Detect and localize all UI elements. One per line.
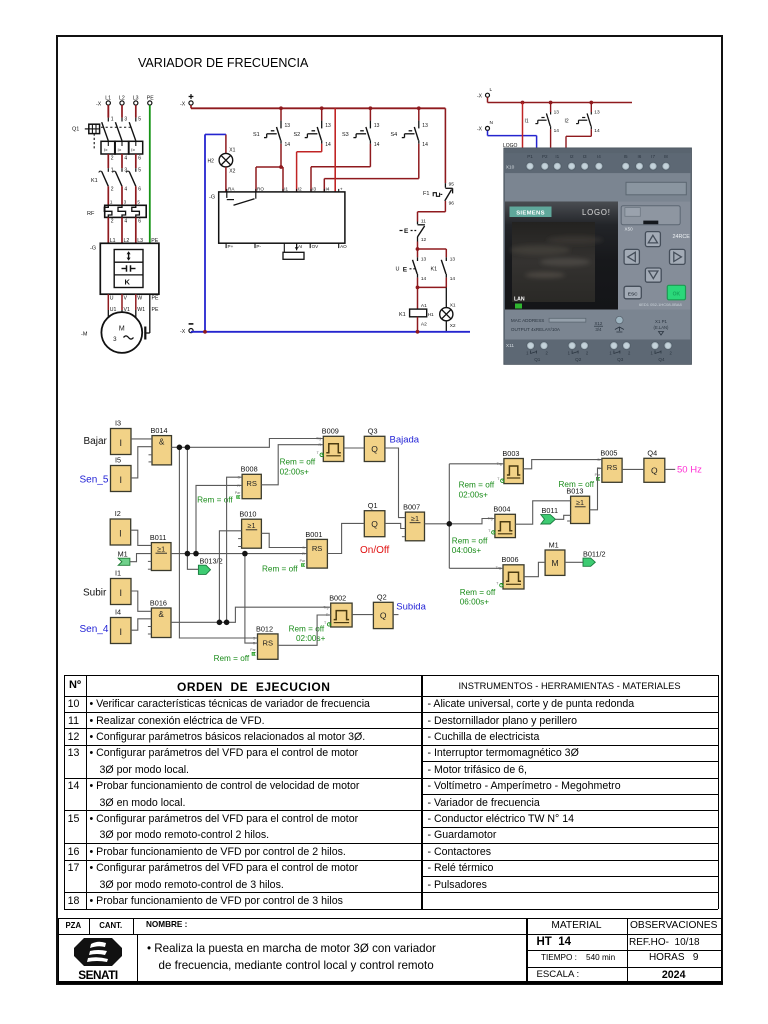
wire	[344, 447, 365, 449]
svg-text:I4: I4	[326, 187, 330, 192]
svg-text:14: 14	[594, 128, 600, 134]
timer block B002	[323, 594, 352, 628]
svg-text:I: I	[119, 627, 122, 637]
svg-text:T: T	[497, 477, 500, 481]
wire	[327, 523, 364, 553]
wire L1 drop to Q1	[108, 105, 136, 118]
wire	[171, 607, 331, 622]
LOGO top terminal strip	[505, 149, 690, 173]
svg-text:K1: K1	[91, 178, 98, 184]
wire	[227, 477, 243, 622]
svg-text:I3: I3	[583, 154, 587, 159]
svg-text:H1: H1	[428, 312, 434, 318]
OR block B007	[402, 503, 425, 541]
svg-text:Q: Q	[651, 466, 658, 476]
wire	[524, 562, 545, 576]
wire F1 to emergency stop	[418, 201, 446, 222]
emergency stop E (11-12)	[400, 218, 427, 243]
terminal -X N- (control)	[180, 324, 193, 335]
svg-text:4: 4	[124, 219, 127, 225]
contactor coil K1 (A1-A2)	[399, 287, 434, 331]
svg-text:I5: I5	[115, 456, 121, 465]
svg-text:E: E	[404, 228, 409, 235]
svg-text:13: 13	[422, 123, 428, 129]
input block I3	[111, 419, 132, 455]
LOGO LCD screen	[512, 222, 595, 302]
svg-text:B004: B004	[493, 505, 510, 514]
svg-text:P2: P2	[542, 154, 548, 159]
wire	[565, 561, 583, 563]
svg-text:RS: RS	[607, 463, 618, 472]
svg-text:B009: B009	[322, 427, 339, 436]
magnetic trip units of Q1	[101, 141, 143, 161]
svg-text:A2: A2	[421, 322, 427, 328]
svg-text:On/Off: On/Off	[360, 545, 389, 556]
wires -G to motor M	[108, 294, 150, 339]
svg-text:B012: B012	[256, 624, 273, 633]
relay output Q1 terminals	[527, 342, 535, 350]
output block Q1	[364, 501, 385, 537]
svg-text:MAC ADDRESS: MAC ADDRESS	[511, 318, 544, 323]
wire contact I1 to LOGO input I1	[550, 129, 552, 148]
wire	[172, 439, 324, 448]
svg-text:RS: RS	[263, 638, 274, 647]
pilot lamp H2 (X1 X2)	[208, 134, 236, 192]
svg-text:≥1: ≥1	[157, 545, 165, 554]
svg-text:B011: B011	[542, 506, 559, 515]
svg-text:I1: I1	[284, 187, 288, 192]
svg-text:06:00s+: 06:00s+	[460, 598, 490, 607]
RS block B008	[235, 465, 261, 499]
VFD box -G (control terminals)	[209, 192, 345, 243]
selector switch S2 (13-14)	[294, 106, 331, 148]
svg-text:11: 11	[421, 218, 426, 224]
svg-text:M1: M1	[118, 549, 128, 558]
wire	[131, 530, 152, 545]
svg-text:PE: PE	[152, 295, 159, 301]
svg-text:14: 14	[554, 128, 560, 134]
OR block B010	[238, 510, 261, 549]
svg-text:M: M	[119, 326, 125, 333]
input block I1	[111, 569, 132, 605]
svg-text:-X: -X	[96, 102, 102, 108]
wire	[393, 614, 398, 616]
svg-text:3: 3	[124, 168, 127, 174]
svg-text:Par: Par	[300, 559, 306, 563]
svg-text:Q: Q	[371, 519, 378, 529]
terminal -X N (LOGO supply)	[477, 120, 494, 133]
wire	[219, 531, 241, 623]
wire	[131, 438, 152, 440]
svg-text:RA: RA	[228, 187, 235, 192]
wire S4 to VFD input I4	[324, 144, 419, 192]
LOGO PLC module body	[504, 148, 691, 364]
svg-text:5: 5	[138, 117, 141, 123]
svg-text:Subir: Subir	[83, 587, 107, 598]
svg-text:Q1: Q1	[368, 501, 378, 510]
svg-text:W1: W1	[137, 307, 145, 313]
svg-text:≥1: ≥1	[576, 498, 584, 507]
wire	[622, 468, 644, 470]
svg-text:Q2: Q2	[575, 357, 582, 362]
svg-text:+: +	[340, 187, 343, 192]
wire L+ to VFD + terminal	[334, 108, 336, 192]
svg-text:I: I	[119, 475, 122, 485]
svg-text:B011: B011	[150, 533, 167, 542]
timer block B004	[488, 505, 516, 538]
svg-text:Rem = off: Rem = off	[460, 588, 496, 597]
svg-text:Q3: Q3	[368, 427, 378, 436]
AND block B014	[149, 426, 172, 465]
input marker M1 flag	[118, 549, 130, 565]
breaker Q1	[72, 117, 141, 151]
selector switch S4 (13-14)	[391, 106, 429, 148]
svg-text:I>: I>	[104, 148, 108, 153]
svg-text:OUTPUT 4xRELAY/10A: OUTPUT 4xRELAY/10A	[511, 327, 561, 332]
svg-text:Par: Par	[235, 491, 241, 495]
RS block B012	[250, 624, 278, 659]
svg-text:14: 14	[285, 142, 291, 148]
LOGO N wire blue	[488, 130, 537, 148]
output block Q3	[364, 427, 385, 462]
LOGO lower strip	[505, 310, 690, 340]
switch contact I1 (13-14)	[525, 101, 560, 134]
svg-text:S2: S2	[294, 132, 301, 138]
OK button green	[667, 285, 685, 300]
wire	[352, 614, 373, 616]
wire	[130, 554, 152, 562]
svg-text:AI: AI	[298, 244, 302, 249]
svg-text:14: 14	[374, 142, 380, 148]
svg-text:13: 13	[450, 256, 456, 262]
relay output Q4 terminals	[651, 342, 659, 350]
LOGO top terminal screws	[526, 162, 534, 170]
wire	[449, 567, 503, 569]
svg-text:-G: -G	[209, 195, 215, 201]
connector marker B011 (input side)	[541, 506, 558, 524]
input block I2	[110, 509, 131, 545]
RS block B001	[300, 530, 328, 568]
svg-text:I3: I3	[312, 187, 316, 192]
svg-text:SIEMENS: SIEMENS	[516, 210, 545, 216]
svg-text:I2: I2	[115, 509, 121, 518]
svg-text:Q: Q	[380, 611, 387, 621]
SIEMENS logo badge	[510, 207, 552, 218]
svg-text:X1: X1	[229, 148, 235, 154]
svg-text:-M: -M	[81, 332, 88, 338]
svg-text:Par: Par	[250, 648, 256, 652]
svg-text:-X: -X	[180, 329, 186, 335]
svg-text:X2: X2	[229, 168, 235, 174]
svg-text:RS: RS	[246, 479, 257, 488]
svg-text:-X: -X	[477, 94, 483, 100]
svg-text:6: 6	[138, 219, 141, 225]
input block I5	[111, 456, 132, 492]
svg-text:I>: I>	[131, 148, 135, 153]
svg-text:Rem = off: Rem = off	[559, 480, 595, 489]
wire	[385, 448, 406, 518]
wire	[555, 515, 570, 519]
svg-text:I6: I6	[637, 154, 641, 159]
svg-text:(E.LAN): (E.LAN)	[654, 325, 669, 330]
svg-text:6: 6	[138, 187, 141, 193]
svg-text:6ED1 052-1HC08-0BA8: 6ED1 052-1HC08-0BA8	[639, 302, 682, 307]
svg-text:RF: RF	[87, 211, 95, 217]
svg-text:P+: P+	[228, 244, 234, 249]
contactor K1	[91, 168, 141, 193]
svg-text:14: 14	[325, 142, 331, 148]
terminal -X L+ (control)	[180, 94, 193, 107]
svg-text:13: 13	[325, 123, 331, 129]
cursor button up	[645, 232, 660, 247]
svg-text:-G: -G	[90, 246, 96, 252]
svg-text:Subida: Subida	[396, 601, 426, 612]
svg-text:1: 1	[111, 117, 114, 123]
svg-text:-X: -X	[180, 102, 186, 108]
LOGO bottom terminal strip	[505, 340, 690, 364]
wire S3 to VFD input I3	[311, 144, 370, 192]
motor -M 3~	[81, 312, 142, 353]
svg-text:K1: K1	[431, 267, 438, 273]
svg-text:B010: B010	[239, 510, 256, 519]
svg-text:I5: I5	[624, 154, 628, 159]
wire	[131, 591, 151, 611]
svg-text:I2: I2	[565, 119, 569, 125]
svg-text:F1: F1	[423, 191, 429, 197]
svg-text:LAN: LAN	[514, 297, 525, 303]
ESC button	[624, 286, 641, 299]
svg-text:W: W	[137, 295, 142, 301]
svg-text:5: 5	[137, 199, 140, 204]
pilot lamp H1 (X1 X2)	[440, 287, 456, 331]
svg-text:24RCE: 24RCE	[673, 234, 691, 240]
svg-text:13: 13	[374, 123, 380, 129]
svg-text:S3: S3	[342, 132, 349, 138]
svg-text:50 Hz: 50 Hz	[677, 464, 702, 475]
svg-text:B016: B016	[150, 598, 167, 607]
wire	[448, 464, 450, 569]
svg-text:95: 95	[449, 182, 455, 188]
svg-text:AO: AO	[340, 244, 347, 249]
svg-text:M: M	[551, 558, 558, 568]
svg-text:Q4: Q4	[658, 357, 665, 362]
wire	[131, 447, 152, 478]
motor terminal labels U V W PE	[110, 295, 159, 313]
svg-text:13: 13	[421, 256, 427, 262]
timer block B003	[497, 449, 524, 484]
thermal contact F1 (95-96)	[423, 182, 454, 207]
terminal -X L (LOGO supply)	[477, 87, 493, 100]
svg-text:I: I	[119, 588, 122, 598]
svg-text:02:00s+: 02:00s+	[280, 468, 310, 477]
wire	[261, 533, 307, 547]
svg-text:X1: X1	[450, 303, 456, 309]
svg-text:Q: Q	[371, 444, 378, 454]
svg-text:X2: X2	[450, 323, 456, 329]
junction dots	[177, 445, 183, 451]
svg-text:S1: S1	[253, 132, 260, 138]
svg-text:Q2: Q2	[377, 593, 387, 602]
wire	[590, 468, 602, 510]
internal relay contact RA-RO	[227, 192, 256, 205]
wire junction to relay output RO	[256, 167, 281, 192]
svg-text:Rem = off: Rem = off	[262, 565, 298, 574]
svg-text:I: I	[119, 438, 122, 448]
svg-text:I4: I4	[597, 154, 601, 159]
svg-text:M1: M1	[549, 540, 559, 549]
svg-text:2: 2	[111, 155, 114, 161]
svg-text:V: V	[124, 295, 128, 301]
relay output Q2 terminals	[568, 342, 576, 350]
svg-text:S4: S4	[391, 132, 398, 138]
svg-text:A1: A1	[421, 303, 427, 309]
svg-text:X11: X11	[506, 343, 515, 349]
svg-text:SENATI: SENATI	[78, 968, 118, 982]
wire	[515, 501, 570, 524]
wire phase segment RF to VFD -G	[108, 217, 158, 243]
svg-text:L3: L3	[133, 96, 139, 102]
svg-text:Rem = off: Rem = off	[197, 496, 233, 505]
svg-text:I: I	[119, 529, 122, 539]
svg-text:I3: I3	[115, 419, 121, 428]
LOGO dark front panel with display	[505, 202, 619, 310]
svg-text:3: 3	[124, 199, 127, 204]
connector marker B011/2	[583, 550, 606, 567]
timer block B009	[316, 427, 344, 462]
svg-text:K1: K1	[399, 312, 406, 318]
wire	[449, 519, 495, 524]
svg-text:B002: B002	[329, 594, 346, 603]
svg-text:B003: B003	[502, 449, 519, 458]
svg-text:L: L	[490, 87, 493, 93]
svg-text:Q1: Q1	[72, 127, 79, 133]
svg-text:04:00s+: 04:00s+	[452, 546, 482, 555]
wire	[187, 554, 198, 570]
VFD top terminal labels RA RO I1 I2 I3 I4 +	[227, 187, 343, 192]
wire	[245, 554, 258, 644]
svg-text:Q4: Q4	[647, 449, 657, 458]
OR block B011	[148, 533, 171, 571]
wire L to LOGO P1	[521, 101, 525, 149]
svg-text:4: 4	[124, 155, 127, 161]
svg-text:K: K	[125, 278, 131, 287]
svg-text:H2: H2	[208, 158, 215, 164]
wire PE green	[149, 105, 151, 243]
title	[138, 55, 308, 70]
svg-text:B005: B005	[600, 449, 617, 458]
svg-text:L1: L1	[105, 96, 111, 102]
svg-text:RO: RO	[257, 187, 264, 192]
thermal relay RF	[87, 199, 146, 224]
AND block B016	[148, 598, 171, 637]
svg-text:PE: PE	[147, 96, 154, 102]
switch contact I2 (13-14)	[565, 101, 600, 134]
svg-text:X10: X10	[506, 164, 515, 170]
wire N blue to lamp H2	[205, 134, 226, 331]
LOGO keypad area	[618, 202, 690, 310]
wire	[196, 485, 242, 553]
selector switch S1 (13-14)	[253, 106, 290, 148]
svg-text:T: T	[496, 582, 499, 586]
svg-text:B011/2: B011/2	[583, 550, 606, 559]
svg-text:3: 3	[124, 117, 127, 123]
LOGO upper recess strip	[505, 173, 690, 201]
svg-text:I8: I8	[664, 154, 668, 159]
wire phase segment K1 to RF	[108, 186, 136, 205]
svg-text:I2: I2	[570, 154, 574, 159]
svg-text:02:00s+: 02:00s+	[459, 491, 489, 500]
svg-text:X12: X12	[594, 321, 602, 326]
svg-text:LOGO!: LOGO!	[582, 208, 611, 217]
svg-text:OK: OK	[673, 292, 681, 298]
svg-text:Bajada: Bajada	[390, 435, 420, 446]
flag block M1	[545, 540, 565, 575]
terminal strip -X with L1 L2 L3 PE	[96, 96, 154, 108]
svg-text:Sen_5: Sen_5	[80, 475, 109, 486]
svg-text:T: T	[317, 451, 320, 455]
svg-text:U1: U1	[110, 307, 117, 313]
svg-text:3: 3	[113, 336, 117, 343]
timer block B006	[496, 555, 524, 589]
svg-text:Bajar: Bajar	[84, 436, 108, 447]
svg-text:Rem = off: Rem = off	[214, 654, 250, 663]
label LOGO	[503, 143, 518, 149]
svg-text:B007: B007	[403, 503, 420, 512]
relay output Q3 terminals	[610, 342, 618, 350]
wire	[261, 445, 323, 485]
start pushbutton U (13-14)	[396, 256, 427, 282]
input block I4	[111, 608, 132, 644]
wire	[131, 619, 151, 630]
svg-text:ESC: ESC	[628, 291, 638, 297]
RS block B005	[595, 449, 622, 483]
svg-text:02:00s+: 02:00s+	[296, 634, 326, 643]
OR block B013	[566, 487, 589, 524]
svg-text:6: 6	[138, 155, 141, 161]
svg-text:14: 14	[422, 142, 428, 148]
svg-text:I1: I1	[115, 569, 121, 578]
output block Q4	[644, 449, 665, 483]
svg-text:U: U	[396, 267, 400, 273]
wire phase segment Q1 to K1	[108, 154, 136, 168]
svg-text:N: N	[490, 120, 494, 126]
svg-text:13: 13	[554, 109, 560, 115]
wire	[523, 460, 602, 469]
wire	[278, 615, 331, 645]
svg-text:B001: B001	[305, 530, 322, 539]
wire	[171, 553, 307, 555]
svg-text:U: U	[110, 295, 114, 301]
svg-text:B006: B006	[502, 555, 519, 564]
cursor button left	[624, 249, 639, 264]
svg-text:Rem = off: Rem = off	[289, 625, 325, 634]
wire	[179, 447, 257, 638]
svg-text:1: 1	[111, 168, 114, 174]
wire S2 to VFD input I2	[297, 144, 322, 192]
svg-text:I2: I2	[298, 187, 302, 192]
svg-text:I1: I1	[525, 119, 529, 125]
svg-text:&: &	[159, 438, 165, 447]
VFD bottom terminals P+ P- AI OV AO	[226, 243, 347, 249]
LOGO L wire red	[488, 97, 633, 102]
svg-text:5: 5	[138, 168, 141, 174]
svg-text:X1 P1: X1 P1	[655, 319, 668, 324]
wire S1 to VFD input I1	[279, 144, 283, 192]
output block Q2	[373, 593, 393, 629]
svg-text:≥1: ≥1	[248, 521, 256, 530]
svg-text:Rem = off: Rem = off	[459, 481, 495, 490]
svg-text:B008: B008	[241, 465, 258, 474]
